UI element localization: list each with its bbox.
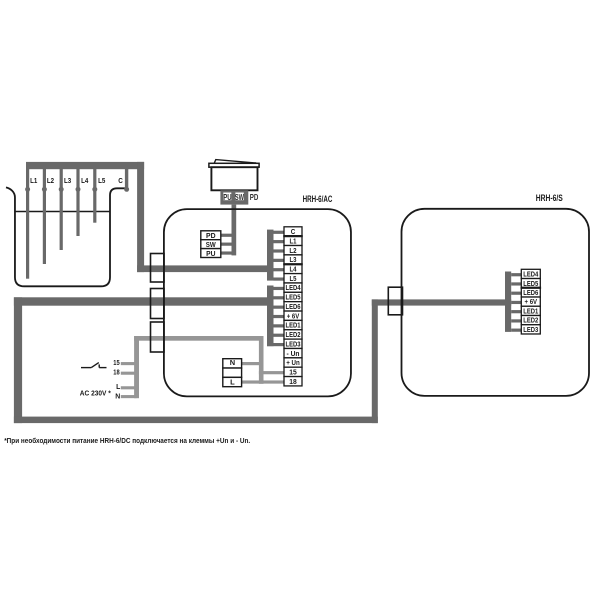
electrode L4: [76, 168, 79, 237]
wire: stub from mains L: [121, 386, 137, 389]
wire: LED bus leaving HRH-6/AC to the left: [14, 297, 274, 305]
stub to terminal L5: [274, 277, 284, 280]
bus bar to terminals C..L5 inside HRH-6/AC: [267, 230, 274, 281]
stub to PU pin: [221, 251, 233, 254]
terminal hole PU: [223, 193, 231, 201]
stub to HRH-6/S terminal + 6V: [511, 301, 522, 304]
stub to terminal LED5: [274, 296, 284, 299]
water level line: [15, 211, 110, 213]
terminal strip HRH-6/AC: [283, 227, 302, 386]
stub to HRH-6/S terminal LED5: [511, 282, 522, 285]
enclosure HRH-6/AC: [164, 209, 351, 396]
svg-text:LED2: LED2: [286, 330, 301, 339]
electrode junction dot: [76, 187, 81, 192]
svg-text:LED6: LED6: [286, 302, 301, 311]
electrode L2: [43, 168, 46, 265]
svg-text:LED3: LED3: [523, 325, 538, 334]
electrode C (common, at rim): [125, 168, 128, 191]
tank (open vessel) outline: [6, 187, 127, 286]
electrode junction dot: [42, 187, 47, 192]
wire: stub from contact 15: [121, 362, 137, 365]
svg-text:LED2: LED2: [523, 316, 538, 325]
stub to terminal LED6: [274, 306, 284, 309]
electrode L1: [26, 168, 29, 279]
svg-text:LED4: LED4: [523, 270, 538, 279]
stub to PD pin: [221, 234, 233, 237]
svg-text:AC 230V *: AC 230V *: [80, 388, 111, 397]
grommet: LED bus exit: [151, 289, 165, 319]
svg-text:HRH-6/S: HRH-6/S: [536, 193, 563, 203]
svg-text:PU: PU: [223, 193, 231, 202]
stub to HRH-6/S terminal LED4: [511, 273, 522, 276]
svg-text:L: L: [116, 384, 120, 391]
stub to HRH-6/S terminal LED6: [511, 292, 522, 295]
bus bar to terminals LED4..LED3 inside HRH-6/S: [505, 272, 511, 332]
stub to SW pin: [221, 243, 233, 246]
wire: bottom horizontal of routing loop: [14, 417, 378, 424]
svg-text:- Un: - Un: [287, 349, 300, 358]
svg-text:18: 18: [289, 377, 297, 386]
svg-text:L: L: [230, 378, 235, 387]
svg-text:L5: L5: [290, 274, 297, 283]
svg-text:N: N: [115, 394, 120, 401]
svg-text:15: 15: [113, 360, 120, 367]
svg-text:L1: L1: [290, 236, 297, 245]
svg-text:PD: PD: [206, 231, 216, 240]
wire: cable from switch down into HRH-6/AC: [232, 205, 237, 256]
external switch: terminal block (gray): [220, 190, 248, 204]
wire: mains bundle into HRH-6/AC: [134, 336, 263, 341]
svg-text:HRH-6/AC: HRH-6/AC: [303, 194, 333, 204]
svg-text:LED4: LED4: [286, 283, 301, 292]
svg-text:SW: SW: [235, 193, 244, 202]
connector block N / L: [223, 358, 242, 387]
svg-text:C: C: [118, 176, 123, 185]
svg-text:LED6: LED6: [523, 288, 538, 297]
stub to terminal C: [274, 231, 284, 234]
stub to terminal LED2: [274, 334, 284, 337]
stub to HRH-6/S terminal LED3: [511, 329, 522, 332]
stub to terminal + 6V: [274, 315, 284, 318]
svg-text:LED1: LED1: [286, 321, 301, 330]
electrode L3: [60, 168, 63, 251]
svg-text:LED1: LED1: [523, 306, 538, 315]
svg-text:15: 15: [289, 367, 297, 376]
external switch: body: [211, 167, 257, 190]
svg-text:+ Un: + Un: [286, 358, 300, 367]
svg-text:L3: L3: [64, 176, 71, 185]
wire: stub from contact 18: [121, 372, 137, 375]
wire: stub to N pin: [242, 362, 264, 365]
electrode junction dot: [25, 187, 30, 192]
stub to terminal LED4: [274, 287, 284, 290]
wire: left vertical of routing loop: [14, 297, 22, 423]
wire: into HRH-6/S LED terminals: [372, 299, 511, 305]
terminal hole SW: [235, 193, 243, 201]
wire: bus down right side of tank: [137, 162, 144, 272]
stub to terminal LED1: [274, 324, 284, 327]
svg-text:LED5: LED5: [523, 279, 538, 288]
relay contact 15-18 symbol: [81, 363, 107, 368]
svg-text:L5: L5: [98, 176, 105, 185]
stub to terminal L4: [274, 268, 284, 271]
wire: stub to terminal 15: [259, 371, 284, 374]
svg-text:N: N: [230, 358, 235, 367]
svg-text:+ 6V: + 6V: [525, 297, 538, 306]
grommet: HRH-6/S cable entry: [388, 287, 402, 315]
svg-text:L2: L2: [47, 176, 54, 185]
svg-text:+ 6V: + 6V: [287, 311, 300, 320]
svg-text:PU: PU: [206, 249, 216, 258]
svg-text:LED5: LED5: [286, 293, 301, 302]
svg-text:*При необходимости питание HRH: *При необходимости питание HRH-6/DC подк…: [4, 436, 250, 445]
electrode junction dot: [92, 187, 97, 192]
svg-text:L4: L4: [290, 265, 297, 274]
bus bar to terminals LED4..LED3 inside HRH-6/AC: [267, 286, 274, 347]
svg-text:PD: PD: [250, 193, 259, 202]
electrode L5: [93, 168, 96, 223]
svg-text:18: 18: [113, 370, 120, 377]
electrode junction dot: [59, 187, 64, 192]
external switch: lid bar: [209, 163, 259, 167]
stub to terminal L3: [274, 259, 284, 262]
terminal strip HRH-6/S: [521, 269, 542, 334]
svg-text:SW: SW: [206, 240, 217, 249]
svg-text:L2: L2: [289, 246, 296, 255]
wire: electrode supply bus (top horizontal): [26, 162, 144, 169]
svg-text:L4: L4: [81, 176, 89, 185]
enclosure HRH-6/S: [402, 209, 590, 396]
stub to terminal L2: [274, 249, 284, 252]
grommet: electrode cable entry: [151, 254, 165, 283]
electrode junction dot: [124, 187, 129, 192]
svg-text:L1: L1: [30, 176, 37, 185]
svg-text:C: C: [291, 227, 296, 236]
wire: L pin to terminal 18: [242, 380, 284, 383]
svg-text:L3: L3: [290, 255, 297, 264]
wire: stub from mains N: [121, 395, 137, 398]
stub to HRH-6/S terminal LED1: [511, 310, 522, 313]
stub to terminal LED3: [274, 343, 284, 346]
wire: mains bundle vertical (outside, light gray): [134, 336, 139, 398]
connector block PD/SW/PU: [201, 231, 221, 258]
wire: mains bundle vertical inside box: [259, 336, 264, 384]
wire: right vertical of routing loop: [372, 299, 378, 423]
wire: into HRH-6/AC to terminals C..L5 (L4 level): [137, 265, 273, 272]
stub to HRH-6/S terminal LED2: [511, 319, 522, 322]
stub to terminal L1: [274, 240, 284, 243]
external switch: open lid wedge: [214, 160, 256, 163]
svg-text:LED3: LED3: [286, 339, 301, 348]
grommet: mains cable entry: [151, 322, 165, 352]
